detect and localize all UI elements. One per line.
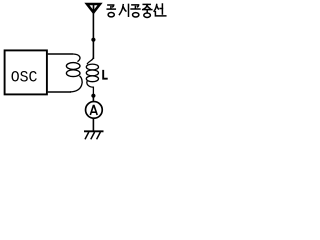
wire OSC bottom to primary coil — [48, 91, 71, 93]
node junction dot above ammeter — [91, 94, 95, 98]
char 공 — [131, 5, 140, 17]
char 선 — [154, 4, 166, 16]
svg-text:OSC: OSC — [11, 68, 38, 86]
wire dot to ammeter — [92, 96, 94, 102]
inductor primary coil of coupling transformer — [66, 54, 82, 92]
label L — [103, 70, 108, 79]
inductor secondary coil L — [86, 57, 98, 94]
char 중 — [143, 4, 152, 17]
wire OSC top to primary coil — [48, 53, 73, 55]
node junction dot on antenna lead — [91, 38, 95, 42]
antenna ANT — [87, 4, 100, 13]
meter A (ammeter) — [86, 102, 103, 119]
label 공시공중선 (antenna label, hand-drawn hangul) — [107, 4, 166, 17]
char 시 — [119, 4, 128, 16]
wire ammeter to ground — [92, 118, 94, 131]
char 공 — [107, 5, 115, 17]
ground earth symbol — [84, 131, 104, 139]
box OSC (oscillator) — [5, 50, 47, 94]
wire antenna lead — [92, 13, 94, 59]
